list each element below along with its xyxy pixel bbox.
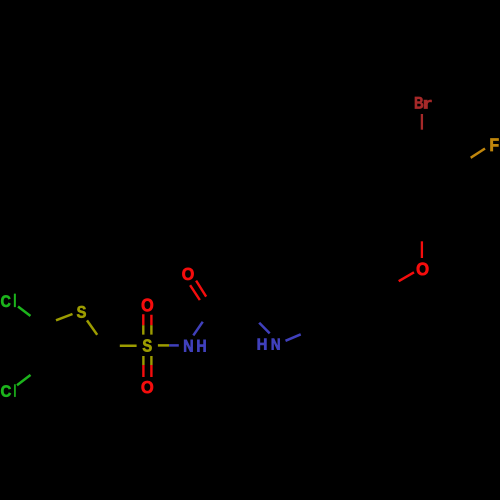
atom label O sulfonyl top oxygen (142, 299, 153, 312)
bond S1-C2 sulfur half (87, 320, 97, 334)
bond Cl2-C4 carbon half (black) (31, 365, 45, 375)
bond HN-C7ap carbon half (black) (301, 328, 316, 335)
atom label O sulfonyl bottom oxygen (142, 381, 153, 393)
bond HN-C7ap nitrogen half (286, 334, 301, 341)
bond C2-S(sulfonyl) carbon half (black) (103, 345, 120, 346)
atom label N indoline nitrogen (letter N) (272, 339, 280, 350)
atom label O ether oxygen (417, 263, 429, 276)
bond S1-C5 sulfur half (56, 314, 73, 320)
bond F-C2pp carbon half (black) (456, 158, 470, 164)
bond Cl1-C5 carbon half (black) (31, 316, 44, 326)
bond HN-C2p nitrogen half (259, 323, 270, 334)
bond N-C(carbonyl) nitrogen half (193, 322, 203, 336)
atom label Br bromine (letter B) (415, 97, 423, 109)
atom label O carbonyl oxygen (182, 268, 193, 280)
atom label Br bromine (letter r) (424, 100, 432, 109)
double bond C=O oxygen halves (red) (190, 281, 206, 301)
atom label N sulfonamide nitrogen (letter N) (184, 340, 192, 352)
wire carbonyl C to stereocenter C2p (black) (212, 307, 250, 308)
atom label F fluorine (491, 139, 499, 152)
bond O(ether)-C4pp oxygen half (red, vertical) (421, 241, 423, 258)
wire thiophene ring skeleton (carbon bonds, black on black) (42, 312, 108, 375)
bond Cl1-C5 chlorine half (18, 307, 31, 317)
double bond C=O carbon halves (black) (200, 297, 216, 315)
wire bicyclic ring skeleton (black) (250, 290, 401, 376)
double bond S=O bottom, sulfur halves (olive) (143, 356, 151, 365)
atom label Cl1 chlorine (letter l) (14, 294, 16, 307)
bond Cl2-C4 chlorine half (17, 375, 31, 385)
atom label S1 thiophene sulfur (77, 306, 86, 318)
atom label Cl1 chlorine (letter C) (1, 295, 10, 307)
double bond S=O top, sulfur halves (olive) (143, 325, 151, 334)
atom label S sulfonyl sulfur (143, 339, 152, 351)
bond Br-C1pp bromine half (421, 114, 423, 130)
bond N-C(carbonyl) carbon half (black) (203, 308, 213, 322)
bond O(ether)-C4pp carbon half (black) (421, 222, 423, 241)
atom label Cl2 chlorine (letter C) (1, 385, 11, 396)
double bond S=O top, oxygen halves (red) (143, 314, 151, 325)
atom label N indoline nitrogen (letter H) (258, 339, 267, 350)
atom label N sulfonamide nitrogen (letter H) (197, 340, 205, 352)
bond S(sulfonyl)-N nitrogen half (169, 344, 179, 347)
bond S(sulfonyl)-N sulfur half (158, 344, 169, 347)
bond Br-C1pp carbon half (black) (421, 130, 423, 144)
bond F-C2pp fluorine half (471, 149, 485, 158)
bond HN-C2p carbon half (black) (250, 312, 259, 323)
bond C2-S(sulfonyl) sulfur half (120, 345, 137, 348)
wire benzene ring (Br,F) skeleton (black) (387, 144, 456, 223)
bond CH2-O(ether) oxygen half (red) (399, 272, 414, 281)
atom label Cl2 chlorine (letter l) (14, 384, 15, 396)
double bond S=O bottom, oxygen halves (red) (143, 365, 151, 377)
bond CH2-O(ether) carbon half (black) (384, 281, 399, 290)
